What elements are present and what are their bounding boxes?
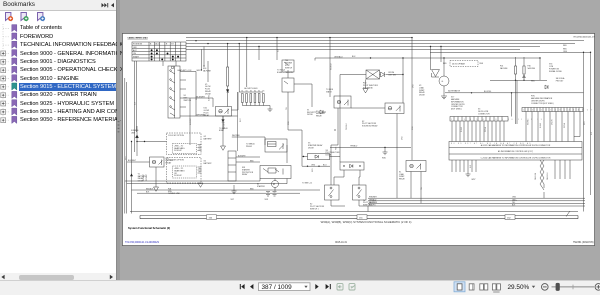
wire label RED to box — [443, 63, 484, 65]
bus bar tag 160 — [207, 215, 217, 220]
first page button — [240, 284, 254, 289]
switch S2 pilot shutoff 1 — [325, 185, 340, 200]
svg-text:SWITCH 1: SWITCH 1 — [310, 208, 319, 210]
svg-text:YEL: YEL — [286, 107, 288, 110]
svg-text:BLU/YEL: BLU/YEL — [484, 91, 491, 93]
svg-text:RELAY: RELAY — [204, 114, 211, 117]
svg-text:COLD WX OPTION: COLD WX OPTION — [168, 160, 184, 162]
svg-text:STARTER: STARTER — [257, 185, 266, 188]
wire labels RED/WHT — [143, 174, 148, 181]
relay K4 starter relay (upper) — [265, 137, 287, 163]
bookmarks panel — [0, 0, 117, 294]
wire labels right feed — [563, 45, 568, 53]
connector P3N label — [531, 96, 554, 105]
wire bus L4 — [186, 46, 540, 48]
zoom in circle (clipped at edge) — [595, 284, 600, 291]
wire glow feed 2 — [246, 38, 248, 87]
svg-text:CONNECTOR (NOT USED): CONNECTOR (NOT USED) — [531, 103, 554, 105]
connector X1 column — [228, 137, 265, 181]
svg-text:RED/WHT: RED/WHT — [146, 174, 148, 181]
svg-text:SOLENOID: SOLENOID — [363, 87, 373, 89]
wire right margin 1 — [583, 52, 585, 211]
svg-text:HEAT ANT LOCK: HEAT ANT LOCK — [178, 69, 193, 72]
wire left margin 1 — [124, 78, 126, 214]
svg-text:RED/PG: RED/PG — [369, 205, 376, 207]
svg-text:WHT: WHT — [240, 118, 242, 122]
svg-text:RED/BLK: RED/BLK — [146, 188, 154, 190]
svg-text:E1: E1 — [242, 91, 244, 93]
diode V5 glow plug relay diode — [205, 84, 212, 96]
svg-text:A5 INFORMATION CONTROLLER (CC7: A5 INFORMATION CONTROLLER (CC7) — [498, 150, 533, 153]
svg-text:TX14740,0000142 -19-20030429: TX14740,0000142 -19-20030429 — [125, 242, 160, 244]
switch S3 pilot shutoff 2 — [331, 185, 368, 212]
svg-text:(NOT USED): (NOT USED) — [451, 109, 462, 111]
tree rows — [19, 83, 116, 91]
solenoid F10 pilot shutoff — [340, 58, 403, 162]
svg-text:ALTERNATOR: ALTERNATOR — [448, 89, 460, 92]
svg-text:RED-W: RED-W — [485, 126, 487, 132]
relay K12 battery relay — [127, 157, 164, 191]
wire alternator drops — [431, 47, 442, 71]
schematic page — [122, 33, 594, 245]
svg-text:C-X154 CAB HARNESS TO INFORMAT: C-X154 CAB HARNESS TO INFORMATION CONTRO… — [481, 157, 551, 160]
svg-text:RELAY: RELAY — [399, 178, 406, 181]
svg-text:PNK/BLK: PNK/BLK — [346, 122, 348, 130]
wire bus L1 — [186, 37, 412, 39]
svg-text:TO SEE +12: TO SEE +12 — [302, 182, 312, 184]
wire harness run — [315, 58, 540, 80]
svg-text:DIODE: DIODE — [308, 147, 314, 149]
svg-text:DOS F4C: DOS F4C — [174, 175, 182, 177]
svg-text:E4: E4 — [254, 91, 256, 93]
CAN twisted pair — [540, 160, 544, 190]
svg-text:System Functional Schematic (2: System Functional Schematic (2) — [128, 226, 170, 230]
svg-text:BLK/WHT: BLK/WHT — [128, 160, 137, 162]
wire acc drops — [202, 47, 205, 71]
relay K2 security — [331, 96, 351, 185]
connector X17 label — [451, 97, 465, 111]
wire table drop 1 — [134, 61, 136, 152]
svg-text:RED-W: RED-W — [564, 122, 566, 128]
wire bus L2 — [186, 40, 584, 42]
bottom wire labels — [369, 197, 517, 207]
svg-text:CONNECTOR: CONNECTOR — [478, 113, 490, 115]
svg-text:VF3: VF3 — [265, 199, 268, 201]
svg-text:SWITCH: SWITCH — [285, 67, 293, 69]
svg-text:START: START — [133, 55, 140, 58]
svg-text:29.50%: 29.50% — [508, 284, 530, 291]
svg-text:26.5V UPTAKE: 26.5V UPTAKE — [452, 63, 466, 66]
diode on glow feed wire — [226, 90, 229, 93]
svg-text:SOLENOID RELAY: SOLENOID RELAY — [362, 125, 378, 128]
diode V53 ccm power on signal — [549, 64, 565, 83]
svg-text:DIODE: DIODE — [326, 155, 332, 157]
svg-text:RELAY: RELAY — [316, 115, 323, 118]
svg-text:KEY SW: KEY SW — [389, 75, 397, 77]
diode V8 pilot shutoff — [334, 162, 364, 185]
svg-text:BATTERY: BATTERY — [204, 162, 213, 165]
svg-text:VF7: VF7 — [231, 199, 234, 201]
svg-text:5A FUSE: 5A FUSE — [203, 69, 212, 72]
svg-text:BLK/WHT: BLK/WHT — [190, 118, 192, 125]
wire labels BLK/WHT — [238, 155, 254, 162]
svg-text:E5: E5 — [258, 91, 260, 93]
diode V1 security — [307, 109, 326, 116]
svg-text:1 2 3 4 5 6 7 8 9 10 11 12 13: 1 2 3 4 5 6 7 8 9 10 11 12 13 — [451, 119, 544, 121]
starter motor B6 — [272, 179, 279, 192]
controller bottom pins — [452, 160, 570, 179]
splitter — [117, 0, 120, 280]
wire table drop 2 — [135, 61, 137, 132]
svg-text:GLOW PLUGS: GLOW PLUGS — [244, 88, 258, 90]
svg-text:PIN 7047: PIN 7047 — [556, 81, 564, 83]
wire security drop — [329, 38, 331, 97]
ground VF7 — [232, 185, 237, 194]
diode V5 starter relay diode — [302, 154, 340, 167]
page number field — [259, 283, 311, 291]
svg-text:POSITION: POSITION — [133, 44, 143, 46]
svg-text:RED/WHT: RED/WHT — [143, 174, 145, 181]
svg-text:DIODE: DIODE — [307, 114, 313, 116]
fuse F56 — [203, 67, 229, 86]
svg-text:PIN 442: PIN 442 — [246, 146, 252, 148]
relay K2 pilot shutoff solenoid relay — [351, 103, 404, 198]
relay K58 starter protection — [260, 166, 291, 179]
alternator G1 — [432, 58, 450, 99]
switch T04 engine door — [282, 60, 312, 166]
svg-text:BLK-W: BLK-W — [540, 123, 542, 128]
svg-text:ACC: ACC — [155, 43, 160, 46]
svg-text:ACC: ACC — [133, 49, 138, 52]
svg-text:COLD WX OPTION: COLD WX OPTION — [168, 135, 184, 137]
svg-text:RELAY: RELAY — [242, 173, 248, 176]
wire glow feed — [238, 44, 240, 92]
wire right margin 2 — [590, 52, 592, 195]
svg-text:ORG: ORG — [311, 164, 316, 166]
voltage spec dashed box — [450, 61, 478, 67]
svg-text:E6: E6 — [263, 91, 265, 93]
svg-text:387 / 1009: 387 / 1009 — [262, 284, 293, 291]
connector strip P3N — [522, 108, 583, 142]
svg-text:CAB/AC WIRING DIAG: CAB/AC WIRING DIAG — [128, 37, 149, 40]
ignition key switch S1 — [163, 61, 238, 118]
zoom out circle — [542, 284, 549, 291]
svg-text:BLK-W: BLK-W — [461, 127, 463, 132]
wire bus L5 — [186, 48, 520, 50]
wire fuse feed — [227, 44, 229, 107]
bookmark toolbar icon 1 (expand, orange badge) — [6, 13, 14, 22]
ground bus bar — [140, 216, 578, 219]
svg-text:RED/BLK: RED/BLK — [331, 62, 333, 70]
svg-text:CAN +: CAN + — [512, 198, 517, 201]
cold weather option box 1 — [167, 133, 202, 155]
fuse F30 — [445, 57, 584, 124]
slider — [552, 286, 595, 288]
wire bus L3 — [186, 43, 575, 45]
wire switch verticals — [190, 61, 213, 145]
svg-text:W37: W37 — [472, 179, 476, 181]
wire color labels (vertical) — [125, 48, 593, 190]
bottom wire runs — [130, 192, 585, 217]
fusible link feed wire — [132, 116, 226, 214]
controller A5 box — [449, 142, 582, 161]
svg-text:W30: W30 — [382, 158, 386, 160]
svg-text:THR/BLU: THR/BLU — [350, 146, 358, 148]
wire left margin 2 — [126, 82, 128, 214]
svg-text:1 2 3 4 5 6 7 8 9 1 2 3 4 5 6: 1 2 3 4 5 6 7 8 9 1 2 3 4 5 6 7 8 9 0 — [523, 110, 595, 112]
svg-text:BLK/WHT: BLK/WHT — [197, 96, 206, 98]
svg-text:VIA F2: VIA F2 — [326, 90, 332, 93]
glow plugs E1-E6 — [239, 92, 272, 111]
bookmark toolbar icon 3 (options, blue badge) — [38, 13, 46, 22]
battery ground VF3 — [266, 192, 277, 197]
svg-text:TM2361 (31MAY05): TM2361 (31MAY05) — [573, 241, 594, 244]
svg-text:FUSIBLE LINK: FUSIBLE LINK — [168, 193, 181, 195]
relay K1 load dump — [406, 161, 426, 204]
svg-text:ORG/BLU: ORG/BLU — [334, 56, 343, 58]
svg-text:9015-10-31: 9015-10-31 — [335, 242, 347, 244]
cold weather option box 2 — [167, 158, 204, 188]
svg-text:ECAB → PHL/GRN: ECAB → PHL/GRN — [277, 71, 293, 74]
svg-text:ORG: ORG — [563, 51, 568, 53]
wire stub — [258, 47, 260, 61]
wire to load dump — [330, 147, 411, 152]
tree dotted guide — [2, 24, 4, 120]
svg-text:G: G — [441, 81, 443, 83]
svg-text:WHT/RED: WHT/RED — [232, 135, 241, 137]
svg-text:DIODE: DIODE — [419, 95, 425, 97]
connector strip X17 — [450, 117, 508, 142]
svg-text:DOS F4C: DOS F4C — [174, 150, 182, 152]
wire starter feed — [237, 92, 239, 151]
junction dots — [195, 37, 591, 131]
svg-text:5A FUSE: 5A FUSE — [500, 67, 508, 70]
bus bar tag 162 — [505, 215, 515, 220]
svg-text:E3: E3 — [250, 91, 252, 93]
svg-text:SIGNAL DIODE: SIGNAL DIODE — [549, 70, 563, 73]
page layout icons — [454, 282, 465, 292]
panel h-scrollbar — [0, 273, 116, 281]
bookmark toolbar icon 2 (new bookmark, green badge) — [21, 13, 29, 22]
svg-text:RX14740,0000142 -19: RX14740,0000142 -19 — [574, 36, 595, 38]
connector pin numbers — [451, 110, 600, 121]
wire door switch drop — [276, 38, 278, 60]
bottom toolbar — [0, 280, 600, 295]
fusible link F50 label — [168, 188, 181, 195]
svg-text:BATTERY: BATTERY — [204, 137, 213, 140]
diode V3 load dump relay diode — [419, 85, 426, 97]
svg-text:SWITCH: SWITCH — [184, 100, 192, 102]
previous view / next view (disabled) — [337, 284, 355, 290]
relay K16 glow plug relay — [216, 92, 239, 130]
fusible link label — [131, 130, 139, 135]
header collapse icons — [102, 3, 115, 7]
diode V1 battery relay diode — [130, 173, 147, 182]
wire battery/starter runs — [125, 179, 320, 194]
fuse F16 — [514, 57, 516, 80]
connector X3 label — [478, 109, 490, 116]
ground W30 — [383, 152, 388, 155]
svg-text:DIODE: DIODE — [205, 93, 211, 95]
svg-text:BLK/WHT: BLK/WHT — [238, 155, 246, 157]
wire pilot relay drop — [411, 38, 413, 160]
svg-text:ORG-W: ORG-W — [552, 119, 554, 125]
bus bar tag 161 — [357, 215, 367, 220]
svg-text:5A FUSE: 5A FUSE — [528, 67, 536, 70]
wire right feed — [430, 51, 591, 53]
svg-text:W30(A), W30(B), W30(C) SYSTEM: W30(A), W30(B), W30(C) SYSTEM FUNCTIONAL… — [321, 220, 412, 224]
wire vertical labels — [461, 122, 566, 132]
svg-text:E2: E2 — [246, 91, 248, 93]
key switch legend table — [132, 42, 186, 61]
next/last page buttons — [315, 284, 331, 289]
